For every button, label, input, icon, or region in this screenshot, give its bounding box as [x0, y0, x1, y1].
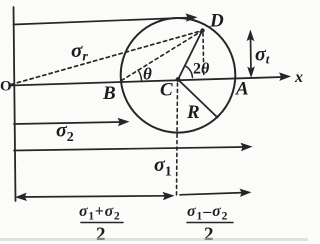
svg-text:2θ: 2θ: [193, 61, 210, 78]
sigma_t double arrow: [250, 36, 253, 72]
svg-text:σ1+σ2: σ1+σ2: [79, 203, 120, 223]
vertical reference line (left datum): [14, 7, 16, 201]
sigma_2 arrow: [14, 122, 121, 124]
faint scan band at bottom: [0, 238, 308, 241]
point C dot: [176, 77, 181, 82]
sigma_1 arrow: [14, 147, 244, 151]
svg-text:O: O: [0, 79, 12, 95]
dashed line O to D (sigma_r): [11, 31, 203, 85]
x axis line: [10, 77, 283, 86]
dashed vertical from D to axis: [202, 33, 205, 76]
dashed vertical from C down to dimension line: [177, 83, 178, 196]
dashed line B to D: [122, 31, 203, 81]
svg-text:θ: θ: [143, 65, 152, 84]
svg-text:σt: σt: [255, 44, 270, 67]
svg-text:σ1–σ2: σ1–σ2: [187, 203, 228, 223]
radius line C to rim: [178, 80, 218, 118]
dimension line left segment: [18, 196, 167, 197]
angle arc 2theta at C: [186, 66, 193, 78]
angle arc theta at B: [138, 70, 142, 80]
svg-text:D: D: [209, 11, 224, 32]
point D dot: [200, 28, 204, 32]
line C to D: [178, 30, 203, 80]
svg-text:R: R: [186, 102, 200, 123]
svg-text:A: A: [235, 79, 249, 100]
Mohr circle: [121, 18, 236, 133]
svg-text:C: C: [160, 80, 173, 101]
top arrow (to D abscissa): [14, 18, 190, 25]
x axis arrowhead: [279, 72, 291, 81]
svg-text:σr: σr: [71, 38, 88, 65]
svg-text:σ1: σ1: [154, 154, 172, 180]
dimension line right segment: [180, 193, 243, 195]
svg-text:x: x: [294, 69, 303, 86]
svg-text:B: B: [102, 83, 116, 104]
